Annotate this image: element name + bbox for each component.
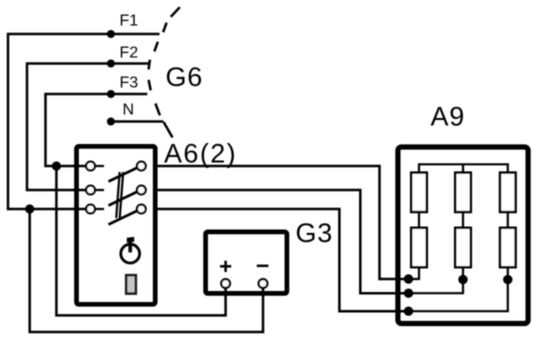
node F1	[107, 30, 115, 38]
power button symbol on A6	[121, 237, 140, 263]
contact stub left pole 2	[95, 189, 105, 191]
wire N stub	[111, 120, 163, 123]
resistor R5 (column 3 top)	[500, 173, 516, 212]
contact stub left pole 1	[95, 165, 105, 167]
wire F3 feeder (node F3 to A6 pole 1 left)	[46, 94, 148, 166]
top bus wire in A9	[419, 164, 508, 172]
terminal circle pole 1 left	[86, 162, 95, 171]
resistor R6 (column 3 bottom)	[500, 228, 516, 267]
junction dot A9 input 3	[404, 307, 413, 316]
svg-text:A9: A9	[431, 102, 466, 132]
plus sign on G3	[220, 261, 231, 272]
switch G6 lever (pole N)	[164, 122, 173, 138]
terminal circle G3 minus	[259, 279, 268, 288]
junction dot (F1 net to G3 minus)	[25, 204, 34, 213]
resistor R2 (column 1 bottom)	[411, 228, 427, 267]
junction dot column 3	[503, 275, 512, 284]
wire F2 feeder (node F2 to A6 pole 2 left)	[27, 64, 149, 191]
svg-text:F3: F3	[120, 75, 139, 92]
svg-text:G6: G6	[166, 62, 204, 92]
terminal circle pole 1 right	[137, 162, 146, 171]
minus sign on G3	[257, 265, 269, 268]
wire from junction to G3 plus terminal	[56, 166, 225, 315]
wire R6 bottom lead to input 3	[408, 267, 508, 311]
wire A6 pole 3 right to A9 input 3	[155, 209, 408, 311]
wire A6 pole 1 right to A9 input 1	[155, 166, 408, 279]
resistor R1 (column 1 top)	[411, 173, 427, 212]
gang bar of contactor (two parallel slanted lines)	[116, 172, 123, 218]
wire R2 bottom lead to input 1	[408, 267, 419, 279]
switch blade pole 1	[109, 168, 138, 182]
svg-text:F2: F2	[120, 45, 139, 62]
junction dot A9 input 1	[404, 274, 413, 283]
svg-text:G3: G3	[296, 218, 334, 248]
junction dot (F3 net to G3 plus)	[52, 161, 61, 170]
terminal circle pole 3 right	[137, 205, 146, 214]
terminal circle pole 2 right	[137, 186, 146, 195]
terminal circle pole 3 left	[86, 205, 95, 214]
node F3	[107, 90, 115, 98]
terminal circle pole 2 left	[86, 186, 95, 195]
junction dot column 2	[458, 275, 467, 284]
switch blade pole 2	[109, 192, 138, 206]
svg-text:A6(2): A6(2)	[164, 138, 237, 168]
terminal circle G3 plus	[221, 279, 230, 288]
node F2	[107, 60, 115, 68]
svg-text:N: N	[123, 102, 135, 119]
switch blade pole 3	[109, 211, 138, 225]
junction dot A9 input 2	[404, 289, 413, 298]
contact stub left pole 3	[95, 208, 105, 210]
resistor R4 (column 2 bottom)	[455, 228, 471, 267]
gray pushbutton on A6	[126, 275, 136, 293]
wire R4 bottom lead to input 2	[408, 267, 463, 293]
wire from junction to G3 minus terminal	[30, 209, 263, 332]
wire F1 feeder (node F1 to A6 pole 3 left, via left bus)	[8, 34, 160, 209]
wire R1 to R2	[418, 212, 420, 228]
node N	[107, 118, 115, 126]
switch G6 gang linkage (dashed arc)	[149, 7, 180, 115]
resistor bank A9 enclosure	[398, 147, 528, 324]
wire A6 pole 2 right to A9 input 2	[155, 190, 408, 293]
power supply G3 enclosure	[206, 232, 287, 294]
contactor A6(2) enclosure	[77, 146, 156, 304]
wire R5 to R6	[507, 212, 509, 228]
resistor R3 (column 2 top)	[455, 173, 471, 212]
wire R3 to R4	[462, 212, 464, 228]
svg-text:F1: F1	[120, 13, 139, 30]
